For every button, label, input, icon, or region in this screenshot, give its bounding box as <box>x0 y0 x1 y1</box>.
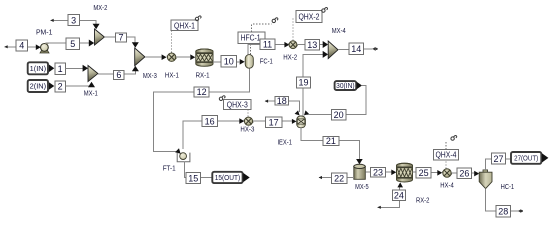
svg-text:21: 21 <box>326 136 336 146</box>
stream 2 wire <box>66 82 92 86</box>
stream box 14 <box>349 43 364 54</box>
stream 24 arrowhead into RX-2 <box>397 182 403 187</box>
stream 21 wire b <box>339 141 360 160</box>
stream 6 wire <box>98 66 135 74</box>
svg-text:10: 10 <box>224 56 234 66</box>
stream 16 wire a <box>183 121 202 149</box>
mixer MX-4 <box>328 41 338 59</box>
heat stream QHX-1 dashed wire <box>171 31 173 53</box>
stream 12 wire b <box>153 92 194 152</box>
stream 4 arrowhead into PM-1 <box>36 44 41 50</box>
stream 14 dangling product end <box>372 47 377 51</box>
svg-text:2(IN): 2(IN) <box>30 82 47 91</box>
heat stream QHX-2 end flag <box>322 8 328 13</box>
svg-text:23: 23 <box>373 168 383 178</box>
stream 28 wire a <box>486 189 496 211</box>
svg-text:16: 16 <box>205 116 215 126</box>
svg-text:MX-5: MX-5 <box>355 182 369 191</box>
stream box 25 <box>416 168 431 179</box>
svg-text:MX-4: MX-4 <box>332 26 346 35</box>
heat stream box HFC-1 <box>238 32 265 44</box>
stream 12 wire a <box>209 68 249 92</box>
stream 22 wire b <box>347 177 354 179</box>
stream 7 wire <box>104 37 135 43</box>
product arrow 15(OUT) <box>243 173 250 182</box>
stream 25 wire a <box>413 171 417 173</box>
mixer MX-1 <box>88 66 98 82</box>
svg-text:QHX-2: QHX-2 <box>298 11 319 21</box>
stream 6 arrowhead into MX-3 <box>132 66 139 71</box>
stream 24 wire b <box>398 187 400 191</box>
stream 15 wire b <box>200 177 212 179</box>
stream 28 dangling product end <box>518 209 523 213</box>
arrowhead into HX-1 <box>162 54 167 60</box>
product box 15(OUT) <box>212 172 242 183</box>
svg-text:6: 6 <box>116 70 121 80</box>
stream box 11 <box>260 39 275 49</box>
svg-text:20: 20 <box>334 110 344 120</box>
wire HX-1 to RX-1 <box>176 56 190 58</box>
svg-text:FC-1: FC-1 <box>260 56 273 65</box>
stream 7 arrowhead into MX-3 <box>132 42 139 47</box>
stream 20 wire a <box>346 86 366 115</box>
stream 14 wire a <box>338 49 349 51</box>
stream 24 dangling feed arrow <box>377 206 380 209</box>
stream 3 wire <box>51 20 97 28</box>
stream 1 arrowhead into MX-1 <box>83 65 88 72</box>
stream box 16 <box>202 116 218 127</box>
stream box 13 <box>305 40 320 51</box>
stream 3 arrowhead into MX-2 <box>93 24 100 29</box>
stream box 4 <box>16 40 27 51</box>
stream 13 wire b <box>320 44 324 46</box>
svg-text:3: 3 <box>71 15 76 25</box>
stream box 21 <box>323 136 339 146</box>
ion exchange column IEX-1 <box>297 116 306 128</box>
stream 18 wire b <box>289 101 300 112</box>
svg-text:HFC-1: HFC-1 <box>241 33 261 43</box>
stream box 19 <box>297 77 311 88</box>
feed arrow 1(IN) <box>49 65 54 73</box>
stream 10 wire b <box>236 61 239 63</box>
heat stream HFC-1 end flag <box>272 18 278 23</box>
svg-text:19: 19 <box>298 78 308 88</box>
svg-text:1: 1 <box>58 64 63 74</box>
stream box 22 <box>332 173 347 183</box>
product arrow 27(OUT) <box>542 153 549 162</box>
svg-text:QHX-4: QHX-4 <box>435 150 456 160</box>
svg-text:15(OUT): 15(OUT) <box>215 173 241 182</box>
svg-text:7: 7 <box>118 33 123 43</box>
stream box 18 <box>275 96 289 106</box>
svg-text:22: 22 <box>334 173 344 183</box>
svg-text:13: 13 <box>307 40 317 50</box>
heat stream box QHX-3 <box>224 99 252 109</box>
stream 18 arrowhead into IEX-1 <box>295 110 300 115</box>
stream 27 wire a <box>486 159 492 170</box>
svg-text:5: 5 <box>70 39 75 49</box>
stream 11 wire a <box>248 45 260 55</box>
stream 23 wire b <box>386 171 392 173</box>
stream 21 arrowhead into MX-5 <box>356 159 363 164</box>
stream 2 arrowhead into MX-1 <box>88 82 95 87</box>
feed box 1(IN) <box>28 62 48 74</box>
heat stream QHX-3 dashed wire <box>247 110 249 117</box>
stream 17 wire b <box>282 120 293 122</box>
stream box 15 <box>186 173 200 184</box>
feed box 30(IN) <box>335 81 357 90</box>
svg-text:30(IN): 30(IN) <box>336 81 355 90</box>
stream 13 arrowhead into MX-4 <box>323 41 328 48</box>
stream 22 dangling feed arrow <box>319 176 322 179</box>
heat exchanger HX-4 <box>442 169 452 177</box>
stream box 17 <box>265 117 281 128</box>
heat stream HFC-1 dashed wire b <box>252 24 272 32</box>
svg-text:QHX-3: QHX-3 <box>227 100 248 110</box>
heat stream QHX-3 end flag <box>219 96 225 101</box>
heat stream QHX-4 dashed wire a <box>445 160 447 169</box>
stream box 7 <box>116 33 127 43</box>
mixer MX-2 <box>95 29 105 45</box>
flash column FC-1 <box>245 55 253 69</box>
mixer MX-5 <box>354 164 366 179</box>
stream 4 wire <box>5 46 37 48</box>
svg-text:17: 17 <box>269 118 279 128</box>
svg-text:28: 28 <box>498 206 508 216</box>
svg-text:2: 2 <box>58 82 63 92</box>
svg-text:27(OUT): 27(OUT) <box>514 154 538 163</box>
heat stream box QHX-4 <box>434 149 459 160</box>
stream 5 arrowhead into MX-2 <box>89 40 94 47</box>
pump PM-1 <box>40 43 49 53</box>
stream 23 wire a <box>365 171 370 173</box>
svg-text:IEX-1: IEX-1 <box>277 137 292 146</box>
stream box 5 <box>66 38 79 50</box>
svg-text:14: 14 <box>351 44 361 54</box>
product box 27(OUT) <box>511 152 541 164</box>
stream 10 wire a <box>213 61 221 63</box>
stream box 28 <box>496 205 511 217</box>
stream 20 wire b <box>307 114 332 116</box>
heat stream QHX-1 end flag <box>195 16 201 21</box>
stream 5 wire <box>46 42 90 44</box>
svg-text:MX-3: MX-3 <box>143 71 157 80</box>
stream 19 arrowhead into MX-4 <box>323 51 328 58</box>
svg-text:RX-2: RX-2 <box>416 196 430 205</box>
stream box 2 <box>55 81 66 92</box>
stream 22 wire a <box>319 177 332 179</box>
stream box 10 <box>221 55 236 67</box>
stream 28 wire b <box>511 210 519 212</box>
stream 12 arrowhead into FT-1 <box>175 148 181 154</box>
svg-text:MX-2: MX-2 <box>93 3 107 12</box>
svg-text:MX-1: MX-1 <box>84 89 98 98</box>
svg-text:11: 11 <box>263 40 272 50</box>
stream 24 wire a <box>378 201 400 208</box>
stream 16 wire b <box>218 120 240 122</box>
stream 25 wire b <box>431 172 438 174</box>
heat stream QHX-2 dashed wire <box>292 17 294 41</box>
stream 16 arrowhead into HX-3 <box>239 118 244 124</box>
stream 18 wire a <box>265 100 275 102</box>
stream 17 arrowhead into IEX-1 <box>292 119 297 124</box>
stream 3 dangling feed arrow <box>50 19 53 22</box>
svg-text:HX-3: HX-3 <box>240 125 254 134</box>
stream box 20 <box>332 109 346 120</box>
stream 14 wire b <box>364 48 373 50</box>
stream box 24 <box>392 190 405 200</box>
flash tank FT-1 <box>177 153 190 162</box>
svg-text:HX-1: HX-1 <box>165 71 179 80</box>
stream 11 arrowhead into HX-2 <box>284 42 289 48</box>
svg-text:12: 12 <box>197 87 207 97</box>
stream 26 wire b <box>472 172 476 174</box>
heat stream box QHX-2 <box>296 11 322 23</box>
heat exchanger HX-2 <box>288 41 297 49</box>
svg-text:PM-1: PM-1 <box>36 27 53 36</box>
stream 1 wire <box>66 67 84 69</box>
heat exchanger HX-3 <box>244 117 254 125</box>
heat stream HFC-1 dashed wire a <box>250 44 252 55</box>
hydrocyclone HC-1 <box>479 170 492 189</box>
stream 25 arrowhead into HX-4 <box>437 170 442 176</box>
stream 13 wire a <box>297 44 305 46</box>
mixer MX-3 <box>135 48 145 66</box>
arrowhead into RX-1 <box>190 54 195 60</box>
svg-text:15: 15 <box>188 173 198 183</box>
svg-text:HX-2: HX-2 <box>283 52 297 61</box>
stream 15 wire a <box>184 162 186 178</box>
stream 10 arrowhead into FC-1 <box>240 59 245 65</box>
stream 19 wire <box>303 54 324 115</box>
stream box 6 <box>114 70 125 80</box>
wire MX-3 to HX-1 <box>145 56 162 58</box>
svg-text:FT-1: FT-1 <box>163 164 176 173</box>
stream box 26 <box>457 168 472 179</box>
svg-text:QHX-1: QHX-1 <box>174 20 195 30</box>
svg-text:25: 25 <box>419 168 429 178</box>
heat exchanger HX-1 <box>167 53 177 61</box>
reactor RX-1 <box>196 49 213 66</box>
stream 4 dangling feed arrow <box>4 45 7 48</box>
feed arrow 2(IN) <box>49 82 54 90</box>
stream 26 arrowhead into HC-1 <box>474 171 479 177</box>
feed arrow 30(IN) <box>357 82 362 90</box>
stream box 27 <box>491 153 505 164</box>
heat stream QHX-4 end flag <box>451 136 457 141</box>
stream 11 wire b <box>275 44 285 46</box>
stream 27 wire b <box>506 158 511 160</box>
reactor RX-2 <box>397 163 413 182</box>
svg-text:18: 18 <box>277 96 287 106</box>
svg-text:27: 27 <box>493 154 503 164</box>
stream box 23 <box>371 168 386 178</box>
stream 26 wire a <box>451 172 457 174</box>
svg-text:26: 26 <box>459 168 469 178</box>
stream 18 dangling feed arrow <box>265 100 268 103</box>
svg-text:4: 4 <box>19 41 24 51</box>
stream box 12 <box>194 87 209 97</box>
heat stream QHX-4 dashed wire b <box>445 141 447 149</box>
svg-text:HX-4: HX-4 <box>440 181 454 190</box>
stream 20 arrowhead into IEX-1 <box>304 110 309 115</box>
svg-text:1(IN): 1(IN) <box>30 64 47 73</box>
stream 21 wire a <box>301 128 323 141</box>
svg-text:RX-1: RX-1 <box>196 71 210 80</box>
svg-text:HC-1: HC-1 <box>501 182 515 191</box>
stream box 3 <box>68 15 79 26</box>
feed box 2(IN) <box>28 80 48 92</box>
heat stream box QHX-1 <box>171 20 198 31</box>
stream box 1 <box>55 63 66 74</box>
stream 17 wire a <box>253 120 266 122</box>
stream 23 arrowhead into RX-2 <box>391 170 396 176</box>
svg-text:24: 24 <box>394 191 404 201</box>
